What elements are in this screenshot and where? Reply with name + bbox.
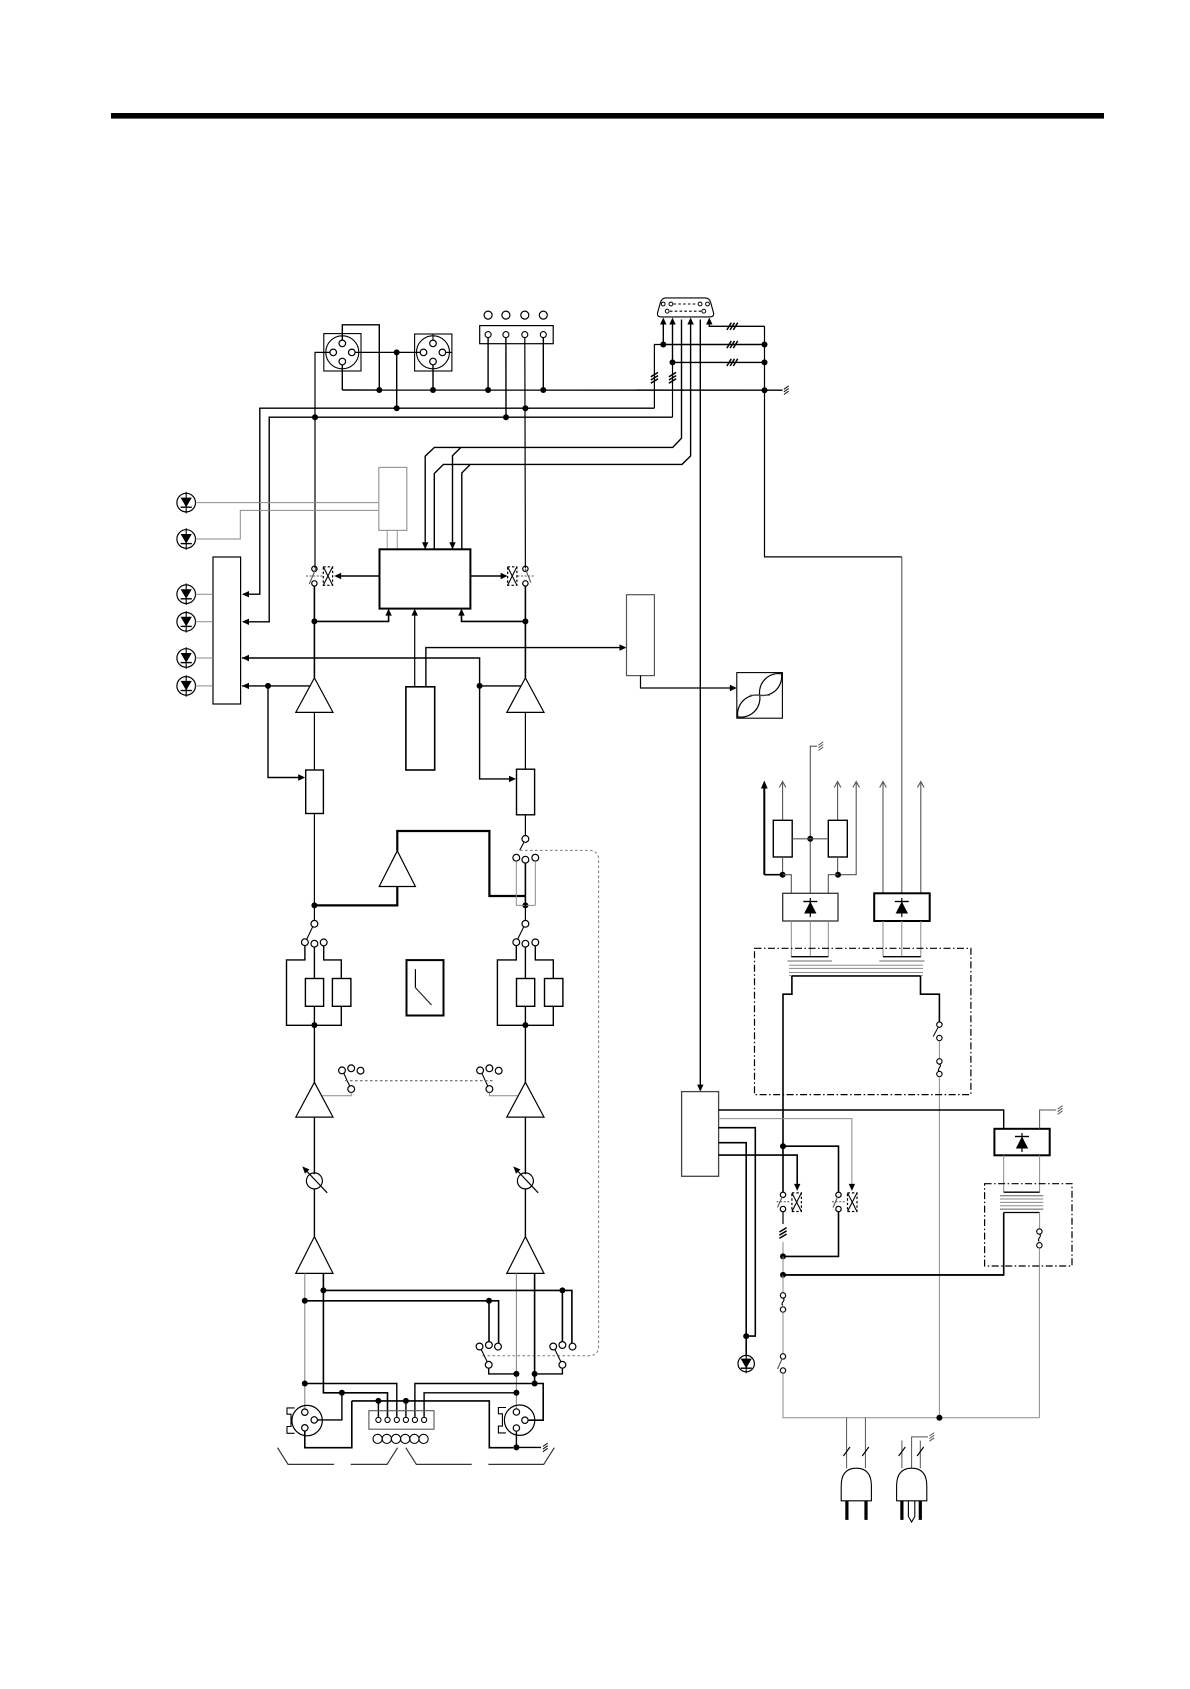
wire protect out <box>641 676 735 688</box>
junction <box>780 1253 786 1259</box>
selector SW4L <box>476 1343 483 1350</box>
AC plug P1 <box>841 1468 871 1501</box>
wire to AC bus <box>783 1373 1039 1418</box>
regulator block (gray) <box>379 467 407 530</box>
T2 fuse <box>1039 1213 1041 1229</box>
wire secondary mid right <box>901 557 903 893</box>
wire R3 row <box>673 361 765 363</box>
junction <box>311 618 317 624</box>
wire D6 sense <box>242 685 310 687</box>
T1 secondary winding left <box>791 956 828 958</box>
wire D4 <box>196 621 214 623</box>
T2 leads <box>1003 1155 1005 1192</box>
XLR-L connector <box>292 1405 322 1435</box>
TB1 screw 3 <box>521 311 529 319</box>
terminal block TB2 <box>369 1411 434 1430</box>
P1 prong 2 <box>864 1501 867 1520</box>
P2 wire 1 <box>901 1441 903 1469</box>
resistor RA-L <box>305 979 323 1007</box>
wire BR3 gnd <box>1040 1110 1057 1129</box>
wire wrap to XLR-R pin2 <box>528 1384 543 1421</box>
wire node to mixer in R <box>462 611 526 622</box>
rectifier BR2 <box>874 893 930 921</box>
dashed gang mid <box>345 1080 494 1082</box>
junction <box>394 405 400 411</box>
break mark <box>862 1447 869 1456</box>
wire J1 bottom pin <box>341 365 343 390</box>
wire RP1 out <box>782 857 784 875</box>
PSU block U2 <box>682 1092 719 1177</box>
AC drop 2 <box>864 1418 866 1469</box>
wire J1 right pin to J2 left pin <box>355 351 420 353</box>
wire AC return <box>783 1274 1004 1276</box>
protect rect <box>627 595 655 676</box>
wire to level box L <box>268 686 303 778</box>
junction <box>780 1272 786 1278</box>
connector J1 DIN socket left <box>324 334 361 371</box>
mid selector R <box>477 1067 484 1074</box>
wire meter drive to mixer <box>414 611 416 687</box>
op-amp A4R <box>507 1237 544 1274</box>
T2 secondary winding <box>1004 1191 1040 1193</box>
wire mute L to node <box>313 586 315 678</box>
TB2 hole 3 <box>391 1434 400 1443</box>
arrow into PSU <box>697 1085 703 1092</box>
TB2 pin 1 <box>376 1417 381 1422</box>
resistor R2 <box>727 341 731 348</box>
title rule <box>111 113 1104 119</box>
ground <box>1058 1111 1063 1114</box>
AC plug P2 <box>897 1468 927 1501</box>
branch diag bus A2 <box>462 464 471 549</box>
mute relay SW-PL <box>780 1192 785 1197</box>
transformer T1 box <box>755 948 971 1094</box>
+B arrow 3 <box>837 783 839 820</box>
XLR-L pin2 <box>311 1417 317 1423</box>
de-emphasis box <box>407 960 444 1015</box>
junction <box>559 1287 565 1293</box>
junction <box>485 387 491 393</box>
wire R4 branch left <box>654 345 663 409</box>
analog switch X-L <box>323 567 332 586</box>
T1 thermal switch <box>937 1022 942 1027</box>
wire XLR-L pin2 branch <box>317 1393 342 1420</box>
LED power <box>738 1355 754 1371</box>
wire CN1 line1 <box>662 320 664 345</box>
TB2 hole 1 <box>373 1434 382 1443</box>
TB1 pin 2 <box>503 332 509 338</box>
CN1 pin <box>665 309 669 313</box>
junction <box>780 872 786 878</box>
+B arrow 2 <box>782 783 784 820</box>
wire SW-PR down <box>783 1212 839 1257</box>
attenuator net L <box>287 946 315 1026</box>
wire mixer out R <box>470 575 505 577</box>
bus level L <box>242 658 514 779</box>
junction <box>302 1298 308 1304</box>
junction <box>312 414 318 420</box>
AC drop 1 <box>846 1418 848 1469</box>
mute switch SW-L <box>312 566 317 571</box>
wire D2 <box>196 510 379 539</box>
bus B y408 <box>243 408 654 594</box>
analog switch X-R <box>508 567 517 586</box>
wire PSU w5 <box>719 1155 798 1185</box>
junction <box>670 359 676 365</box>
volume VR-L <box>306 1173 322 1189</box>
P2 earth pin <box>908 1501 914 1522</box>
junction <box>513 1444 519 1450</box>
LED display block <box>213 557 241 704</box>
junction <box>265 683 271 689</box>
junction <box>477 683 483 689</box>
wire D5 <box>196 657 214 659</box>
op-amp A3R <box>507 1082 544 1117</box>
ground <box>784 391 789 394</box>
wire CN1 line4 to bus A2 <box>434 320 690 550</box>
+B arrow 6 <box>920 783 922 893</box>
attenuator net R <box>497 946 525 1026</box>
SW2R bracket <box>515 861 517 905</box>
junction <box>936 1415 942 1421</box>
wire level R out <box>524 815 526 836</box>
TB1 screw 2 <box>502 311 510 319</box>
+B arrow 4 <box>838 783 856 875</box>
terminal strip TB1 <box>480 326 554 344</box>
rectifier BR3 <box>994 1129 1049 1156</box>
op-amp A4L <box>296 1237 333 1274</box>
TB1 pin 1 <box>485 332 491 338</box>
wire TB pin4 <box>405 1401 407 1417</box>
TB2 hole 4 <box>401 1434 410 1443</box>
CN1 pin <box>661 302 665 306</box>
wire mixer out L <box>336 575 380 577</box>
P2 wire 2 <box>919 1441 921 1469</box>
wire TB1 pin4 down <box>542 338 544 390</box>
P1 prong 1 <box>845 1501 848 1520</box>
wire CN1 line2 <box>672 320 674 363</box>
wire A2 in (thick) <box>314 887 397 906</box>
wire A4L in- (gray) <box>304 1273 306 1409</box>
LED D4 <box>177 613 196 632</box>
wire A3L-volL <box>313 1117 315 1174</box>
CN1 pin row dashes <box>674 303 698 305</box>
J2 pin right <box>439 349 446 356</box>
junction <box>522 1022 528 1028</box>
resistor R5 <box>669 372 676 376</box>
wire CN1 line6 <box>709 320 764 327</box>
TB2 pin 2 <box>385 1417 390 1422</box>
junction <box>522 618 528 624</box>
brace 3 <box>406 1448 472 1465</box>
junction <box>503 414 509 420</box>
op-amp A3L <box>296 1082 333 1117</box>
bus gang R <box>305 1301 499 1343</box>
wire TB1 pin1 down <box>487 338 489 390</box>
bus C y417 <box>243 417 673 622</box>
brace 4 <box>488 1448 554 1465</box>
XLR-L pin3 <box>302 1425 308 1431</box>
TB2 hole 5 <box>410 1434 419 1443</box>
J1 pin bottom <box>339 358 346 365</box>
junction <box>320 1287 326 1293</box>
level box R <box>517 769 535 815</box>
XLR-R connector <box>504 1405 534 1435</box>
J2 pin bottom <box>430 358 437 365</box>
LED D3 <box>177 585 196 604</box>
XLR-R latch <box>498 1408 506 1433</box>
junction <box>532 1381 538 1387</box>
junction <box>522 902 528 908</box>
selector SW3R <box>524 905 526 920</box>
wire TB pin6 link <box>424 1393 516 1417</box>
arrow into mixer <box>449 542 455 549</box>
bus gang L <box>323 1290 572 1343</box>
wire volL-A4L <box>313 1189 315 1237</box>
J2 pin top <box>430 340 437 347</box>
resistor RB-R <box>545 979 563 1007</box>
wire A2 out (thick) <box>397 831 525 896</box>
wire A4R in+ <box>534 1273 536 1383</box>
wire D6 <box>196 685 214 687</box>
wire A4R in- (gray) <box>515 1273 517 1408</box>
TB1 screw 1 <box>484 311 492 319</box>
ground wire center <box>810 746 817 893</box>
wire R5 branch <box>672 362 674 417</box>
ground <box>543 1448 548 1451</box>
junction <box>376 387 382 393</box>
ground <box>929 1438 934 1441</box>
level box L <box>306 770 324 814</box>
XLR-L pin1 <box>302 1409 308 1415</box>
wire J1 top pin loop <box>342 325 379 390</box>
mixer block U1 <box>380 549 471 608</box>
junction <box>660 342 666 348</box>
resistor R-P <box>782 1212 784 1224</box>
junction <box>339 1390 345 1396</box>
break mark <box>843 1447 850 1456</box>
wire level R tap <box>480 685 522 687</box>
stub to mixer <box>386 530 388 549</box>
junction <box>762 387 768 393</box>
J2 pin left <box>420 349 427 356</box>
arrow into LED block <box>242 619 249 625</box>
wire XLR-L pin3 gnd <box>305 1401 352 1448</box>
TB2 pin 6 <box>422 1417 427 1422</box>
wire mute R feed <box>783 1146 839 1192</box>
selector SW2R output <box>522 836 529 843</box>
mid selector L <box>339 1067 346 1074</box>
wire D3 <box>196 593 214 595</box>
junction <box>311 902 317 908</box>
CN1 pin <box>706 302 710 306</box>
CN1 pin <box>669 302 673 306</box>
wire RP2 out <box>837 857 839 875</box>
ground <box>818 747 823 750</box>
resistor R1 <box>727 323 731 330</box>
CN1 pin <box>702 309 706 313</box>
P2 wire gnd <box>912 1437 928 1468</box>
wire A1R in <box>524 712 526 769</box>
selector SW4R <box>550 1343 557 1350</box>
+B arrow 1 <box>763 788 765 875</box>
connector CN1 D-sub <box>657 298 713 317</box>
volume VR-R <box>517 1173 533 1189</box>
resistor box RP1 <box>773 820 792 857</box>
wire TB1 pin2 down <box>505 338 507 418</box>
op-amp A1R <box>507 678 544 713</box>
break mark <box>917 1447 924 1456</box>
wire mute R to node <box>524 586 526 678</box>
P2 prong 2 <box>919 1501 922 1520</box>
wire PSU w3 <box>719 1128 756 1336</box>
wire D1 <box>196 502 379 504</box>
XLR-R pin2 <box>522 1417 528 1423</box>
bus gnd TB <box>352 1401 513 1448</box>
LED D1 <box>177 493 196 512</box>
LED D5 <box>177 649 196 668</box>
power amp A2 <box>379 851 415 887</box>
brace 2 <box>351 1448 398 1465</box>
analog switch X-PR <box>848 1193 858 1212</box>
LED D6 <box>177 677 196 696</box>
XLR-L latch <box>287 1408 295 1433</box>
resistor R4 <box>651 372 658 376</box>
brace 1 <box>278 1448 335 1465</box>
TB2 hole 6 <box>419 1434 428 1443</box>
junction <box>513 1390 519 1396</box>
T1 secondary winding right <box>883 956 921 958</box>
junction <box>807 836 813 842</box>
XLR-R pin1 <box>513 1409 519 1415</box>
break mark <box>899 1447 906 1456</box>
selector SW3L <box>313 905 315 920</box>
connector J2 DIN socket right <box>415 334 452 371</box>
arrow into LED block <box>242 591 249 597</box>
T1 core <box>789 964 923 966</box>
arrow into mixer <box>422 542 428 549</box>
junction <box>532 1371 538 1377</box>
analog switch X-PL <box>792 1193 802 1212</box>
fuse F1 <box>782 1275 784 1293</box>
wire TB pin3 link <box>305 1384 397 1417</box>
J1 pin left <box>330 349 337 356</box>
T1 thermal fuse <box>937 1059 942 1064</box>
resistor RB-L <box>332 979 351 1007</box>
T1 primary winding <box>783 976 792 1192</box>
junction <box>835 872 841 878</box>
wire node to mixer in L <box>314 611 388 622</box>
wire R2 row <box>663 344 764 346</box>
junction <box>394 349 400 355</box>
wire A4L in+ <box>323 1273 387 1417</box>
resistor RA-R <box>517 979 535 1007</box>
+B arrow 5 <box>882 783 884 893</box>
T2 primary winding <box>1000 1208 1043 1210</box>
wire XLR-R pin3 gnd <box>515 1431 517 1447</box>
bus GND y390 <box>342 389 782 391</box>
wire level L out <box>313 814 315 906</box>
junction <box>513 1371 519 1377</box>
TB2 pin 3 <box>394 1417 399 1422</box>
mute relay SW-PR <box>836 1192 841 1197</box>
junction <box>522 405 528 411</box>
transformer T2 box <box>985 1184 1072 1266</box>
resistor box RP2 <box>828 820 847 857</box>
resistor R3 <box>727 359 731 366</box>
transformer T1 secondary leads <box>790 921 792 957</box>
wire PSU w1 <box>719 1110 1004 1129</box>
TB2 hole 2 <box>382 1434 391 1443</box>
wire PSU w4 <box>719 1143 747 1355</box>
dashed gang big <box>481 850 598 1355</box>
wire TB1 pin3 / right channel feed <box>524 338 527 569</box>
wire CN1 line3 to bus A1 <box>425 320 681 550</box>
junction <box>311 1022 317 1028</box>
junction <box>486 1298 492 1304</box>
meter rect <box>406 687 435 770</box>
oscillator box <box>737 673 783 719</box>
wire PSU w2 <box>719 1119 852 1186</box>
power switch S1 <box>780 1354 785 1359</box>
mute switch SW-R <box>523 566 528 571</box>
rectifier BR1 <box>783 893 838 921</box>
P2 prong 1 <box>900 1501 903 1520</box>
T2 core <box>1000 1198 1043 1200</box>
J1 pin top <box>339 340 346 347</box>
junction <box>762 359 768 365</box>
wire DIN mid vertical <box>396 352 398 408</box>
wire J2 right pin stub <box>446 351 452 353</box>
wire J1 left pin to node <box>315 352 330 568</box>
branch diag bus A1 <box>453 447 461 549</box>
wire T2 left down <box>783 1213 1004 1275</box>
wire J2 bottom pin <box>432 365 434 390</box>
wire +B bus right <box>765 326 902 557</box>
junction <box>430 387 436 393</box>
TB2 pin 5 <box>412 1417 417 1422</box>
wire to ground <box>516 1446 541 1448</box>
wire TB pin1 <box>377 1401 379 1417</box>
wire A1L in <box>313 712 315 770</box>
junction <box>302 1381 308 1387</box>
wire J2 top pin stub <box>432 334 434 340</box>
junction <box>375 1398 381 1404</box>
TB2 pin 4 <box>403 1417 408 1422</box>
wire A3R-volR <box>524 1117 526 1174</box>
junction <box>743 1333 749 1339</box>
wire RP link <box>792 838 828 840</box>
XLR-R pin3 <box>513 1425 519 1431</box>
CN1 pin <box>698 302 702 306</box>
LED D2 <box>177 530 196 549</box>
junction <box>540 387 546 393</box>
junction <box>762 342 768 348</box>
op-amp A1L <box>296 678 333 713</box>
wire volR-A4R <box>524 1189 526 1237</box>
wire CN1 line5 to PSU <box>699 320 701 1086</box>
TB1 screw 4 <box>539 311 547 319</box>
TB1 pin 4 <box>540 332 546 338</box>
wire TB pin5 link <box>415 1384 535 1417</box>
bus meter feed <box>426 648 625 687</box>
junction <box>403 1398 409 1404</box>
J1 pin right <box>349 349 356 356</box>
TB1 pin 3 <box>522 332 528 338</box>
junction <box>780 1143 786 1149</box>
